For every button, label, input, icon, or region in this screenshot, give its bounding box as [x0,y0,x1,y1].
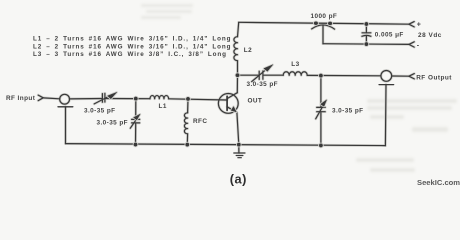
svg-text:RF Input: RF Input [6,95,36,102]
svg-text:0.005 μF: 0.005 μF [375,32,404,39]
svg-text:1000 pF: 1000 pF [311,13,338,20]
svg-text:3.0-35 pF: 3.0-35 pF [247,81,278,88]
svg-text:3.0-35 pF: 3.0-35 pF [332,108,363,115]
svg-text:L1: L1 [159,103,167,110]
svg-text:3.0-35 pF: 3.0-35 pF [97,120,128,127]
svg-text:-: - [417,42,420,49]
svg-text:(a): (a) [230,172,247,187]
svg-text:RF Output: RF Output [416,74,452,81]
svg-text:3.0-35 pF: 3.0-35 pF [84,107,115,114]
svg-text:+: + [417,22,422,29]
svg-text:SeekIC.com: SeekIC.com [417,178,460,187]
svg-text:28 Vdc: 28 Vdc [418,32,442,39]
svg-text:L2 – 2 Turns #16 AWG Wire 3/16: L2 – 2 Turns #16 AWG Wire 3/16” I.D., 1/… [33,43,231,50]
svg-text:L2: L2 [244,47,252,54]
svg-text:OUT: OUT [248,98,263,105]
svg-text:L3 – 3 Turns #16 AWG Wire 3/8”: L3 – 3 Turns #16 AWG Wire 3/8” I.C., 3/8… [33,51,227,58]
svg-text:RFC: RFC [193,118,207,125]
svg-text:L3: L3 [291,61,299,68]
svg-text:L1 – 2 Turns #16 AWG Wire 3/16: L1 – 2 Turns #16 AWG Wire 3/16” I.D., 1/… [33,36,231,43]
